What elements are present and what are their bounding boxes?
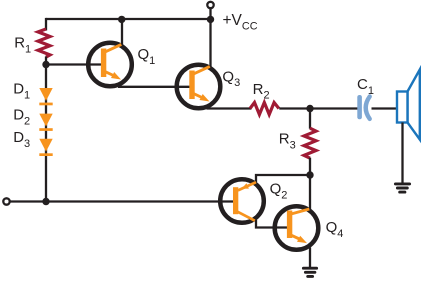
transistor Q4 [275, 206, 319, 250]
wire R1 bottom stub [45, 57, 47, 65]
wire R1 top stub [45, 18, 47, 31]
node junction R3/Q2 emitter/Q4 collector [306, 171, 313, 178]
wire Q2 emitter elbow to R3 node [256, 175, 310, 182]
node junction R1/D1/Q1-base [42, 61, 49, 68]
node junction R2/R3/C1 [306, 105, 313, 112]
svg-text:C1: C1 [357, 76, 374, 97]
transistor Q2 [220, 179, 264, 223]
wire Q4 collector [309, 175, 311, 209]
wire top rail [46, 18, 211, 20]
speaker LS1 [397, 70, 420, 140]
diode D1 [39, 88, 52, 105]
terminal input [3, 198, 9, 204]
wire Q1 emitter to Q3 base [118, 86, 190, 88]
wire Q1 collector [121, 19, 123, 45]
wire Q3 emitter / output line left segment [207, 107, 252, 109]
wire Q4 emitter to ground [309, 248, 311, 269]
svg-text:R1: R1 [14, 35, 31, 56]
terminal +Vcc [207, 2, 213, 16]
svg-text:Q1: Q1 [138, 46, 156, 67]
wire Q3 collector [209, 19, 211, 67]
ground speaker [395, 184, 409, 192]
node junction top rail / Vcc / Q3 collector [207, 16, 214, 23]
capacitor C1 [357, 95, 369, 119]
wire Q1 base [46, 63, 102, 65]
svg-text:D1: D1 [13, 81, 30, 102]
wire input line to Q2 base [10, 200, 234, 202]
resistor R3 [304, 128, 316, 158]
node junction input / diode chain [42, 198, 49, 205]
resistor R1 [38, 29, 50, 57]
svg-text:R2: R2 [253, 81, 270, 102]
transistor Q1 [88, 43, 132, 87]
node junction top rail / Q1 collector [118, 16, 125, 23]
svg-text:R3: R3 [279, 131, 296, 152]
diode D2 [39, 114, 52, 131]
wire R3 bottom stub [309, 158, 311, 175]
wire C1 to speaker [372, 107, 399, 109]
svg-text:Q3: Q3 [222, 68, 240, 89]
wire speaker to ground [401, 123, 403, 184]
diode D3 [39, 139, 52, 156]
wire output line middle segment [279, 107, 357, 109]
transistor Q3 [177, 65, 221, 109]
svg-text:D3: D3 [13, 129, 30, 150]
svg-text:+VCC: +VCC [223, 12, 258, 33]
svg-text:Q4: Q4 [326, 219, 344, 240]
wire diode chain vertical [45, 65, 47, 202]
wire Q2 collector elbow to Q4 base [256, 220, 289, 228]
svg-text:D2: D2 [13, 107, 30, 128]
svg-text:Q2: Q2 [270, 181, 288, 202]
wire R3 top stub [309, 109, 311, 129]
ground Q4 [303, 268, 316, 276]
resistor R2 [250, 103, 279, 115]
